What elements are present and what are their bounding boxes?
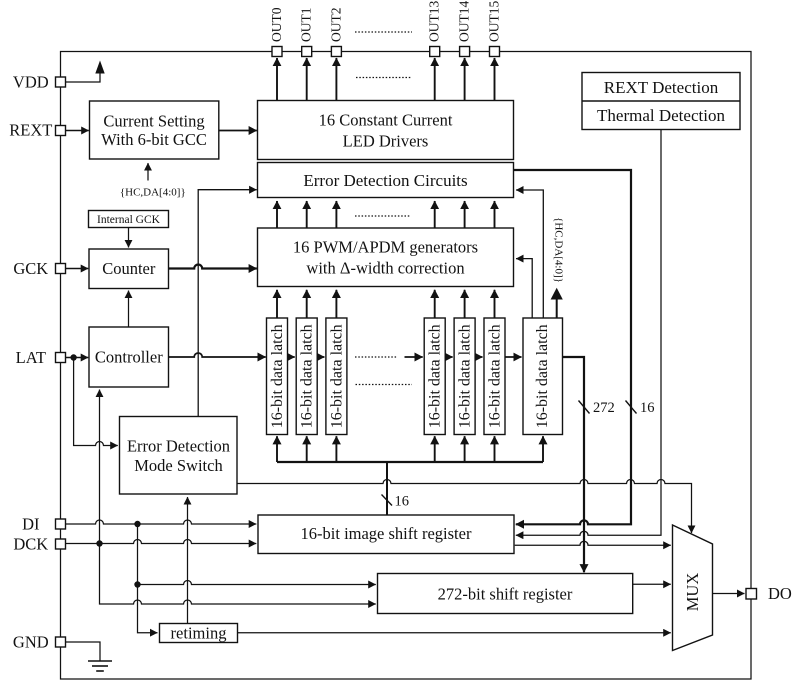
pin OUT14 xyxy=(460,47,470,57)
bus riser arrow into latch4 xyxy=(434,436,436,462)
wire latch7 to PWM right side xyxy=(516,259,532,318)
block: Error Detection Circuits xyxy=(258,163,514,198)
wire HC,DA[4:0] config arrow into Current Setting xyxy=(147,163,149,181)
svg-text:REXT: REXT xyxy=(9,121,52,140)
pin LAT xyxy=(56,353,66,363)
svg-text:With 6-bit GCC: With 6-bit GCC xyxy=(101,130,207,149)
svg-text:16-bit data latch: 16-bit data latch xyxy=(427,324,444,428)
wire DCK to image shift register xyxy=(65,540,256,544)
junction dot DI-272 branch xyxy=(134,581,140,587)
bus riser arrow into latch2 xyxy=(306,436,308,462)
pin DCK xyxy=(56,539,66,549)
slash 16 on image data bus xyxy=(382,495,393,506)
svg-text:16-bit data latch: 16-bit data latch xyxy=(534,324,551,428)
slash 272 bus xyxy=(579,401,590,414)
block: 16 Constant Current LED Drivers xyxy=(258,101,514,160)
junction dot DCK branch xyxy=(96,540,102,546)
svg-text:16-bit data latch: 16-bit data latch xyxy=(269,324,286,428)
wire image shift register to MUX xyxy=(515,541,671,545)
bus riser arrow into latch6 xyxy=(494,436,496,462)
junction dot DI branch xyxy=(134,521,140,527)
svg-text:{HC,DA[4:0]}: {HC,DA[4:0]} xyxy=(553,217,565,283)
wire GCK to Counter xyxy=(65,268,88,270)
dotted row latch mid lower xyxy=(356,384,413,386)
wire into latch4 xyxy=(405,356,423,358)
svg-text:OUT14: OUT14 xyxy=(457,1,472,42)
svg-text:16-bit data latch: 16-bit data latch xyxy=(457,324,474,428)
wire retiming to MUX xyxy=(238,632,671,634)
block: 16 PWM/APDM generators xyxy=(258,228,514,287)
wire PWM to Error Detection Circuits col1 xyxy=(276,201,278,228)
wire x199 controller column to Error Detection Circuits xyxy=(198,190,257,417)
block: 272-bit shift register xyxy=(378,574,633,614)
svg-text:16-bit image shift register: 16-bit image shift register xyxy=(301,524,472,543)
block: 16-bit data latch 3 xyxy=(326,318,347,435)
block: REXT Detection / Thermal Detection xyxy=(582,73,740,130)
wire latch6 to latch7 xyxy=(505,356,522,358)
wire DI branch to 272-bit shift register xyxy=(138,581,376,585)
wire Current Setting to LED Drivers xyxy=(219,130,257,132)
pin GCK xyxy=(56,264,66,274)
svg-text:{HC,DA[4:0]}: {HC,DA[4:0]} xyxy=(120,187,186,199)
BOXES xyxy=(89,73,741,651)
pin OUT13 xyxy=(430,47,440,57)
svg-text:16-bit data latch: 16-bit data latch xyxy=(487,324,504,428)
block: 16-bit data latch 1 xyxy=(267,318,288,435)
wire PWM to Error Detection Circuits col4 xyxy=(434,201,436,228)
wire Controller to data latch chain (hop) xyxy=(169,353,266,357)
svg-text:DCK: DCK xyxy=(13,535,48,554)
block: retiming xyxy=(160,624,238,643)
pin OUT15 xyxy=(490,47,500,57)
pin DI xyxy=(56,519,66,529)
svg-text:16: 16 xyxy=(640,400,655,416)
svg-text:Error Detection Circuits: Error Detection Circuits xyxy=(303,171,467,190)
wire LED driver to OUT15 xyxy=(494,58,496,101)
wire latch1 to PWM xyxy=(276,290,278,318)
wire Counter to PWM generators (gclk bus, hop over vertical) xyxy=(169,265,257,269)
wire Controller to Counter xyxy=(128,291,130,328)
block: 16-bit data latch 7 (config) xyxy=(523,318,563,435)
dotted row between PWM-ErrDet arrows xyxy=(355,215,410,217)
wire retiming up to Error Detection Mode Switch xyxy=(187,497,189,624)
svg-text:MUX: MUX xyxy=(683,573,702,612)
wire latch5 to latch6 xyxy=(475,356,482,358)
wire image shift register to latch bus (16 wide) xyxy=(386,462,388,515)
ground symbol xyxy=(88,661,112,671)
wire PWM to Error Detection Circuits col2 xyxy=(306,201,308,228)
wire Error Detection Circuits to image shift register (16 err bus) xyxy=(514,170,631,524)
wire latch7 to Error Detection Circuits right side xyxy=(516,190,543,318)
block: 16-bit data latch 2 xyxy=(296,318,317,435)
block: Controller xyxy=(89,327,169,387)
wire 272-bit shift register to MUX xyxy=(633,583,671,585)
wire latch3 to PWM xyxy=(335,290,337,318)
wire LED driver to OUT0 xyxy=(276,58,278,101)
svg-text:Current Setting: Current Setting xyxy=(103,111,204,130)
bus riser arrow into latch7 xyxy=(542,436,544,462)
wire Thermal Detection to image shift register xyxy=(516,130,661,536)
dotted row between OUT wires xyxy=(356,77,412,79)
latch parallel-load bus xyxy=(277,461,543,463)
bus riser arrow into latch3 xyxy=(335,436,337,462)
svg-text:272-bit shift register: 272-bit shift register xyxy=(438,585,573,604)
wire PWM to Error Detection Circuits col3 xyxy=(335,201,337,228)
block: 16-bit image shift register xyxy=(258,515,514,554)
svg-text:OUT15: OUT15 xyxy=(487,1,502,42)
svg-text:16: 16 xyxy=(395,494,410,510)
wire GND to ground symbol xyxy=(65,642,100,661)
wire LED driver to OUT13 xyxy=(434,58,436,101)
pin VDD xyxy=(56,77,66,87)
svg-text:272: 272 xyxy=(593,400,615,416)
svg-text:VDD: VDD xyxy=(13,72,49,91)
wire latch4 to PWM xyxy=(434,290,436,318)
wire latch4 to latch5 xyxy=(445,356,452,358)
svg-text:Thermal Detection: Thermal Detection xyxy=(597,106,725,125)
pin OUT2 xyxy=(331,47,341,57)
svg-text:Counter: Counter xyxy=(102,259,156,278)
wire LAT to Controller xyxy=(65,357,88,359)
power arrow up symbol xyxy=(95,61,104,74)
mux U1 trapezoid xyxy=(673,525,713,651)
block: Error Detection Mode Switch xyxy=(120,417,238,495)
svg-text:with Δ-width correction: with Δ-width correction xyxy=(306,259,464,278)
wire DI branch down to retiming xyxy=(138,524,158,633)
wire Error Detection Mode Switch to MUX select xyxy=(237,480,692,534)
svg-text:16 Constant Current: 16 Constant Current xyxy=(319,111,453,130)
dotted continuation latch chain xyxy=(355,356,397,358)
wire LAT branch to Error Detection Mode Switch xyxy=(74,358,118,446)
wire latch1 to latch2 xyxy=(288,356,295,358)
wire latch7 HC,DA[4:0] label arrow xyxy=(556,299,558,318)
pin GND xyxy=(56,637,66,647)
bus riser arrow into latch1 xyxy=(276,436,278,462)
pin OUT0 xyxy=(272,47,282,57)
block: Counter xyxy=(89,249,169,289)
bus riser arrow into latch5 xyxy=(464,436,466,462)
wire latch2 to latch3 xyxy=(317,356,324,358)
svg-text:LAT: LAT xyxy=(16,348,46,367)
svg-text:DI: DI xyxy=(22,515,39,534)
wire DCK up to Controller xyxy=(99,390,101,544)
wire LED driver to OUT14 xyxy=(464,58,466,101)
wire PWM to Error Detection Circuits col6 xyxy=(494,201,496,228)
slash 16 err bus xyxy=(626,401,637,414)
svg-text:REXT Detection: REXT Detection xyxy=(604,78,719,97)
svg-text:Mode Switch: Mode Switch xyxy=(134,456,223,475)
block: Current Setting With 6-bit GCC xyxy=(90,101,219,159)
wire DI to image shift register xyxy=(65,520,256,524)
svg-text:OUT2: OUT2 xyxy=(328,8,343,43)
svg-text:16-bit data latch: 16-bit data latch xyxy=(328,324,345,428)
svg-text:GCK: GCK xyxy=(13,259,48,278)
wire latch6 to PWM xyxy=(494,290,496,318)
svg-text:16 PWM/APDM generators: 16 PWM/APDM generators xyxy=(293,237,478,256)
svg-text:DO: DO xyxy=(768,584,792,603)
svg-text:OUT0: OUT0 xyxy=(269,7,284,42)
wire REXT to Current Setting xyxy=(65,130,89,132)
junction dot LAT xyxy=(70,354,76,360)
svg-text:retiming: retiming xyxy=(171,624,227,643)
svg-text:Internal GCK: Internal GCK xyxy=(97,214,161,226)
wire latch5 to PWM xyxy=(464,290,466,318)
wire latch2 to PWM xyxy=(306,290,308,318)
block: 16-bit data latch 6 xyxy=(484,318,505,435)
wire DCK branch to 272-bit shift register xyxy=(100,544,376,605)
pin REXT xyxy=(56,126,66,136)
svg-text:Error Detection: Error Detection xyxy=(127,436,230,455)
svg-text:OUT13: OUT13 xyxy=(427,1,442,42)
svg-text:OUT1: OUT1 xyxy=(299,8,314,43)
wire LED driver to OUT2 xyxy=(335,58,337,101)
wire LED driver to OUT1 xyxy=(306,58,308,101)
pin DO xyxy=(746,589,757,600)
pin OUT1 xyxy=(302,47,312,57)
PINS xyxy=(56,47,757,648)
wire VDD to power arrow xyxy=(65,72,100,82)
block: Internal GCK xyxy=(89,211,169,228)
block: 16-bit data latch 5 xyxy=(454,318,475,435)
svg-text:16-bit data latch: 16-bit data latch xyxy=(299,324,316,428)
block: 16-bit data latch 4 xyxy=(424,318,445,435)
wire Internal GCK to Counter xyxy=(128,228,130,248)
svg-text:LED Drivers: LED Drivers xyxy=(343,132,429,151)
svg-text:GND: GND xyxy=(13,633,49,652)
dotted row between OUT2 and OUT13 labels xyxy=(355,31,412,33)
svg-text:Controller: Controller xyxy=(95,348,163,367)
wire MUX to DO xyxy=(713,593,745,595)
outer IC boundary box xyxy=(61,52,752,680)
wire latch7 to 272-bit shift register (272 bus down) xyxy=(563,357,585,572)
wire PWM to Error Detection Circuits col5 xyxy=(464,201,466,228)
